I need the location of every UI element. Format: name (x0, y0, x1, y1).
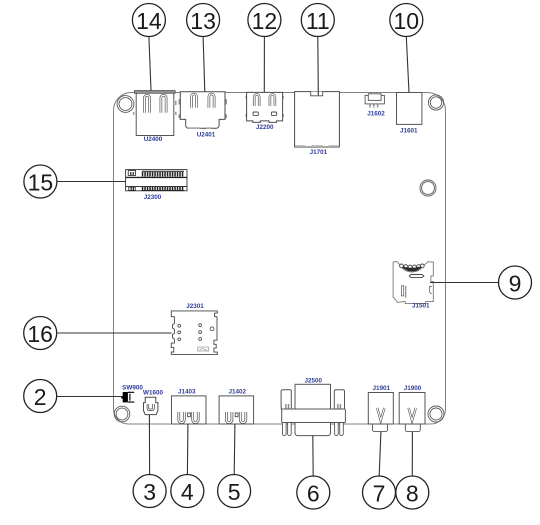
svg-text:14: 14 (136, 8, 162, 34)
svg-text:9: 9 (509, 271, 522, 297)
svg-text:U2401: U2401 (197, 132, 216, 139)
callout line 4 (186, 424, 189, 474)
callout line 6 (312, 436, 314, 476)
svg-text:2: 2 (34, 384, 47, 410)
callout line 15 (57, 181, 126, 183)
SIM holder J2301 (171, 311, 217, 355)
svg-text:4: 4 (181, 479, 194, 505)
svg-text:J1900: J1900 (404, 385, 422, 392)
callout line 16 (57, 332, 172, 334)
callout 3 (133, 475, 166, 508)
connector W1600 (144, 397, 158, 414)
USB connector J2200 (246, 92, 284, 122)
svg-text:5: 5 (228, 479, 241, 505)
callout line 3 (148, 415, 150, 475)
callout 2 (24, 380, 57, 413)
microSD slot J1501 (393, 262, 433, 304)
svg-text:J1601: J1601 (400, 128, 418, 135)
power jack J1601 (397, 93, 422, 125)
svg-text:SW900: SW900 (122, 385, 143, 392)
audio jack J1901 (368, 393, 393, 432)
callout 12 (248, 4, 281, 37)
callout 5 (218, 475, 251, 508)
callout line 5 (233, 424, 236, 474)
callout line 13 (203, 37, 205, 92)
svg-text:11: 11 (306, 8, 330, 34)
svg-text:6: 6 (307, 481, 320, 507)
callout 7 (363, 476, 396, 509)
USB connector U2400 (133, 91, 177, 136)
svg-text:10: 10 (394, 8, 420, 34)
svg-text:12: 12 (252, 8, 278, 34)
svg-text:J1602: J1602 (367, 111, 385, 118)
callout 8 (396, 476, 429, 509)
svg-text:J2301: J2301 (186, 303, 204, 310)
callout line 2 (57, 396, 122, 398)
svg-text:3: 3 (143, 479, 156, 505)
svg-text:J1403: J1403 (178, 388, 196, 395)
HDMI connector U2401 (179, 92, 227, 129)
svg-text:8: 8 (406, 481, 419, 507)
callout line 10 (406, 37, 409, 93)
callout 15 (24, 165, 57, 198)
connector J1602 (365, 94, 384, 108)
callout line 11 (317, 37, 320, 96)
svg-text:J2300: J2300 (144, 194, 162, 201)
callout 11 (301, 4, 334, 37)
edge connector J2300 (126, 170, 187, 191)
callout 16 (24, 317, 57, 350)
USB connector J1403 (172, 396, 207, 424)
USB connector J1402 (219, 396, 254, 424)
callout 4 (171, 475, 204, 508)
ethernet connector J1701 (295, 92, 340, 147)
svg-text:J1402: J1402 (229, 388, 247, 395)
svg-text:16: 16 (27, 321, 53, 347)
svg-text:J2200: J2200 (256, 124, 274, 131)
svg-text:J2500: J2500 (305, 377, 323, 384)
mounting hole bottom-left (114, 406, 130, 422)
svg-text:U2400: U2400 (144, 136, 163, 143)
callout 13 (187, 4, 220, 37)
audio jack J1900 (399, 393, 425, 432)
small hole right side (420, 180, 436, 196)
svg-text:15: 15 (28, 170, 54, 196)
callout line 9 (430, 282, 498, 284)
svg-text:J1701: J1701 (310, 149, 328, 156)
svg-text:J1901: J1901 (373, 385, 391, 392)
VGA connector J2500 (281, 384, 345, 435)
svg-text:W1600: W1600 (143, 389, 163, 396)
svg-text:13: 13 (190, 8, 216, 34)
mounting hole top-left (117, 96, 134, 113)
callout line 14 (149, 37, 151, 91)
callout 14 (132, 4, 165, 37)
mounting hole bottom-right (428, 406, 444, 422)
svg-text:J1501: J1501 (412, 302, 430, 309)
callout line 7 (379, 432, 381, 476)
callout line 12 (263, 37, 265, 93)
callout line 8 (411, 432, 413, 476)
switch SW900 (121, 392, 134, 402)
board outline (114, 93, 446, 425)
callout 9 (499, 266, 532, 299)
callout 6 (297, 476, 330, 509)
svg-text:7: 7 (373, 481, 386, 507)
mounting hole top-right (428, 95, 443, 110)
callout 10 (390, 4, 423, 37)
